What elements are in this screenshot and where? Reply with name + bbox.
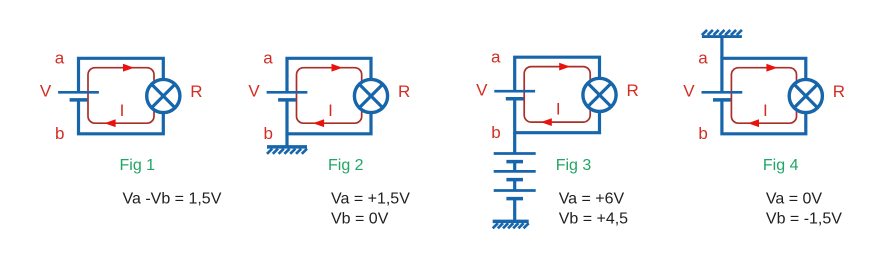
- svg-text:Va = +6V: Va = +6V: [559, 191, 625, 208]
- svg-text:R: R: [190, 82, 202, 101]
- svg-text:R: R: [398, 82, 410, 101]
- svg-text:I: I: [556, 100, 561, 119]
- svg-text:I: I: [763, 101, 768, 120]
- svg-text:b: b: [491, 123, 500, 142]
- svg-text:Va = 0V: Va = 0V: [766, 191, 823, 208]
- svg-text:R: R: [833, 82, 845, 101]
- svg-text:Fig 2: Fig 2: [328, 157, 364, 174]
- svg-text:Vb = 0V: Vb = 0V: [331, 210, 389, 227]
- svg-text:Va -Vb = 1,5V: Va -Vb = 1,5V: [123, 191, 222, 208]
- svg-text:Vb = +4,5: Vb = +4,5: [559, 210, 628, 227]
- svg-text:a: a: [263, 49, 273, 68]
- svg-text:Vb = -1,5V: Vb = -1,5V: [766, 210, 842, 227]
- svg-text:Va = +1,5V: Va = +1,5V: [331, 191, 410, 208]
- svg-text:Fig 1: Fig 1: [120, 157, 156, 174]
- svg-text:R: R: [627, 81, 639, 100]
- svg-text:I: I: [328, 101, 333, 120]
- svg-text:b: b: [55, 124, 64, 143]
- svg-text:I: I: [120, 101, 125, 120]
- svg-text:V: V: [248, 81, 260, 100]
- svg-text:a: a: [55, 49, 65, 68]
- svg-text:V: V: [40, 81, 52, 100]
- svg-text:b: b: [264, 124, 273, 143]
- svg-text:V: V: [683, 81, 695, 100]
- svg-text:V: V: [476, 80, 488, 99]
- svg-text:a: a: [491, 47, 501, 66]
- svg-text:b: b: [698, 124, 707, 143]
- svg-text:a: a: [698, 49, 708, 68]
- svg-text:Fig 3: Fig 3: [556, 157, 592, 174]
- svg-text:Fig 4: Fig 4: [763, 157, 799, 174]
